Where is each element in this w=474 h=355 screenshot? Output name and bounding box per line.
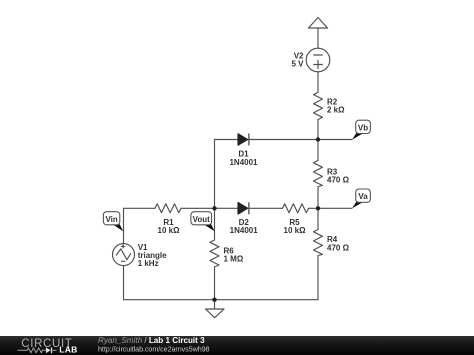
voltage source V2 bbox=[306, 48, 330, 72]
wire R5 to right rail bbox=[309, 207, 319, 209]
logo CIRCUIT text bbox=[21, 338, 72, 350]
svg-text:http://circuitlab.com/ce2arnvs: http://circuitlab.com/ce2arnvs5wh98 bbox=[98, 345, 210, 354]
svg-text:1 MΩ: 1 MΩ bbox=[224, 254, 244, 263]
junction node Vout bbox=[212, 206, 216, 210]
resistor R1 bbox=[155, 204, 181, 213]
label R3 value bbox=[327, 167, 350, 184]
logo resistor squiggle bbox=[18, 348, 46, 353]
wire bottom rail bbox=[124, 299, 319, 301]
voltage source V1 bbox=[113, 244, 135, 266]
label V2 value bbox=[291, 52, 304, 69]
wire R6 to bottom bbox=[214, 267, 216, 300]
wire V2 to R2 bbox=[317, 72, 319, 93]
svg-text:470 Ω: 470 Ω bbox=[327, 243, 350, 252]
junction node ground bbox=[212, 298, 216, 302]
wire main row left bbox=[124, 207, 156, 209]
label R4 value bbox=[327, 235, 350, 252]
svg-text:5 V: 5 V bbox=[291, 60, 304, 69]
svg-text:1N4001: 1N4001 bbox=[229, 158, 258, 167]
svg-text:470 Ω: 470 Ω bbox=[327, 176, 350, 185]
svg-text:Vb: Vb bbox=[358, 123, 368, 132]
svg-text:1 kHz: 1 kHz bbox=[138, 259, 159, 268]
svg-text:Ryan_Smith / Lab 1 Circuit 3: Ryan_Smith / Lab 1 Circuit 3 bbox=[98, 336, 205, 345]
ground bbox=[206, 300, 225, 318]
flag Va bbox=[352, 189, 370, 208]
wire R2 to Vb node bbox=[317, 120, 319, 161]
svg-text:10 kΩ: 10 kΩ bbox=[158, 226, 181, 235]
svg-text:1N4001: 1N4001 bbox=[230, 226, 259, 235]
svg-text:Vout: Vout bbox=[193, 215, 211, 224]
svg-text:Va: Va bbox=[358, 192, 368, 201]
diode D2 bbox=[238, 203, 249, 215]
wire V1 to bottom bbox=[123, 266, 125, 300]
wire left rail top bbox=[123, 208, 125, 243]
flag Vb bbox=[352, 120, 370, 140]
label R6 value bbox=[224, 246, 244, 263]
resistor R3 bbox=[314, 161, 323, 187]
diode D1 bbox=[238, 134, 249, 146]
flag Vout bbox=[191, 212, 215, 232]
wire D2 to R5 bbox=[249, 207, 282, 209]
svg-text:2 kΩ: 2 kΩ bbox=[327, 106, 345, 115]
resistor R6 bbox=[210, 240, 219, 267]
wire D1 row bbox=[215, 139, 353, 141]
label R2 value bbox=[327, 98, 345, 115]
wire arrow to V2 bbox=[317, 28, 319, 48]
junction node Vb bbox=[316, 137, 320, 141]
wire mid rail bbox=[214, 140, 216, 241]
junction node Va bbox=[316, 206, 320, 210]
wire R1 to Vout node bbox=[181, 207, 238, 209]
label R1 value bbox=[158, 218, 181, 235]
label D1 value bbox=[229, 150, 258, 167]
label R5 value bbox=[284, 218, 307, 235]
label V1 value bbox=[138, 243, 167, 268]
svg-text:LAB: LAB bbox=[59, 344, 77, 354]
svg-text:Vin: Vin bbox=[105, 215, 117, 224]
wire R4 to bottom bbox=[317, 256, 319, 300]
resistor R4 bbox=[314, 230, 323, 256]
label D2 value bbox=[230, 218, 259, 235]
wire R3 to Va node bbox=[317, 187, 319, 230]
footer bar bbox=[0, 336, 474, 355]
svg-text:10 kΩ: 10 kΩ bbox=[284, 226, 307, 235]
wire Va row right bbox=[318, 207, 352, 209]
power arrow VCC bbox=[309, 18, 328, 29]
footer title text bbox=[98, 336, 210, 354]
logo LAB text bbox=[59, 344, 77, 354]
logo diode bbox=[46, 347, 57, 353]
flag Vin bbox=[103, 212, 123, 232]
resistor R2 bbox=[314, 92, 323, 119]
resistor R5 bbox=[283, 204, 309, 213]
